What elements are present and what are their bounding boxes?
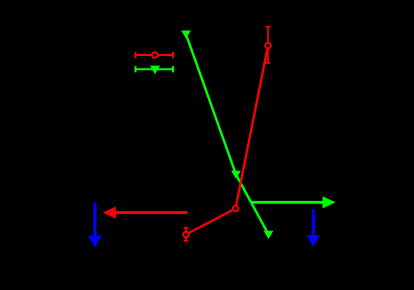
green marker G3 triangle-down	[264, 231, 274, 239]
blue down arrow right	[307, 210, 320, 247]
green series line G1-G2-G3	[186, 34, 269, 234]
green marker G1 triangle-down	[181, 31, 191, 39]
legend red entry marker open circle	[152, 52, 158, 58]
blue down arrow left	[88, 203, 101, 248]
red series line P1-P2-P3	[186, 46, 268, 235]
red left arrow	[103, 207, 188, 219]
green marker G2 triangle-down	[231, 171, 241, 179]
red marker P3 open circle	[265, 43, 271, 49]
legend green entry marker triangle-down	[150, 66, 160, 75]
red marker P1 open circle	[183, 232, 189, 238]
red error bar at P1	[184, 228, 189, 241]
red error bar at P3	[266, 27, 271, 63]
red marker P2 open circle	[233, 206, 239, 212]
legend green entry: errorbar line with caps	[136, 66, 174, 72]
green right arrow	[251, 196, 336, 208]
legend red entry: errorbar line with caps	[136, 52, 174, 58]
